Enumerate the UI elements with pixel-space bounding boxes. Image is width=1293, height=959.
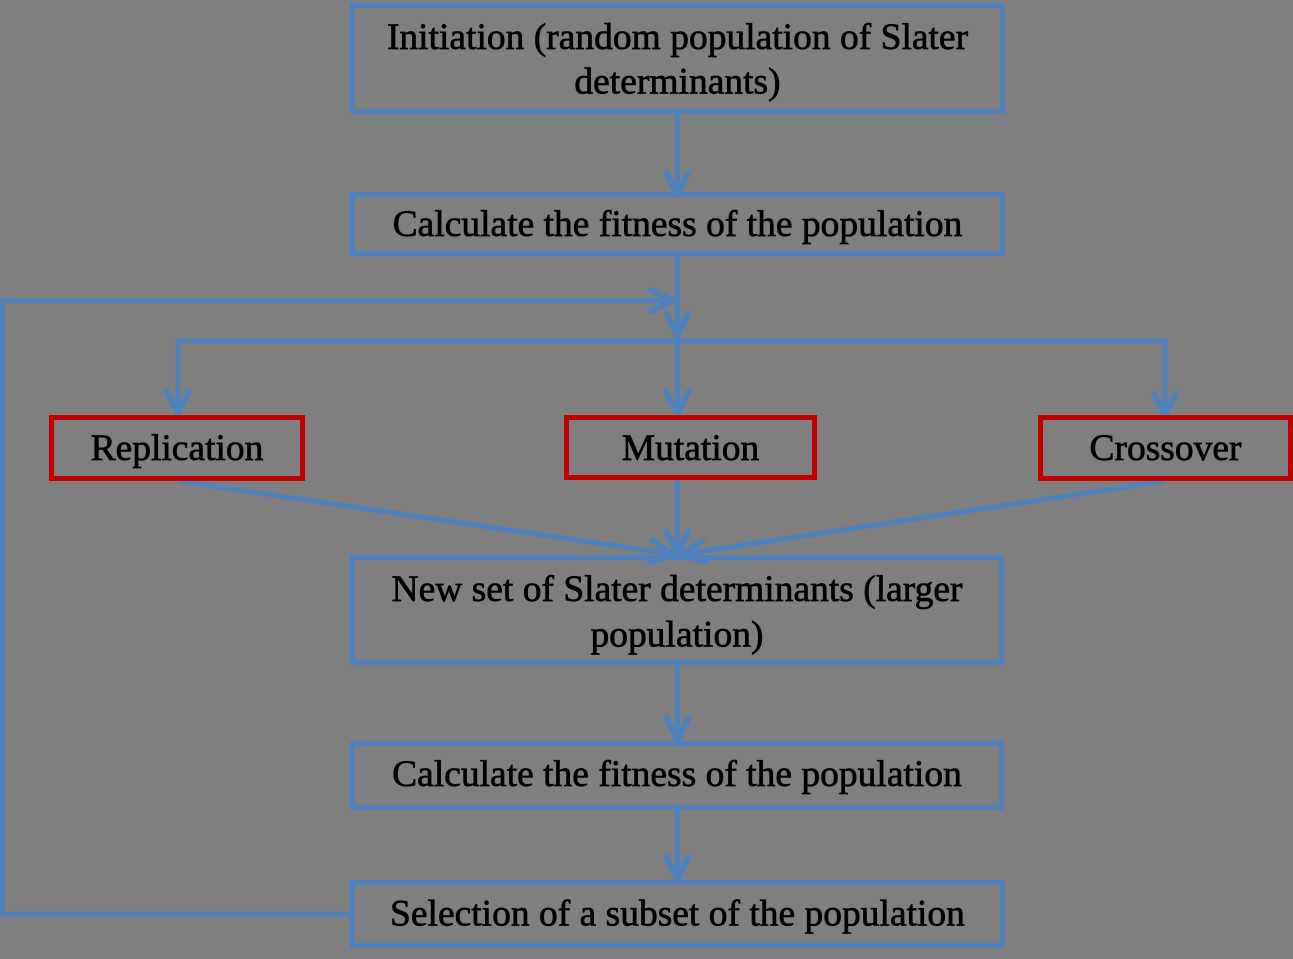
arrowhead Mutation into New set bbox=[667, 532, 689, 554]
arrowhead into box2 bbox=[667, 173, 689, 195]
wire: New set to Calc2 stem bbox=[675, 665, 680, 739]
arrowhead diag left into New set bbox=[650, 540, 673, 562]
wire: distribution rail bbox=[176, 339, 1168, 344]
box: Calculate fitness 2 bbox=[353, 744, 1002, 808]
wire: feedback bottom horizontal bbox=[0, 912, 350, 917]
svg-text:Selection of a subset of the p: Selection of a subset of the population bbox=[390, 894, 965, 935]
box: Crossover bbox=[1041, 418, 1291, 479]
svg-text:Replication: Replication bbox=[91, 428, 264, 469]
arrowhead above rail bbox=[667, 314, 689, 336]
svg-text:Mutation: Mutation bbox=[622, 428, 760, 469]
wire: Mutation to New set stem bbox=[675, 480, 680, 552]
wire: feedback top horizontal bbox=[0, 298, 668, 303]
wire: feedback left vertical bbox=[0, 298, 5, 917]
svg-text:population): population) bbox=[591, 615, 764, 656]
box: Mutation bbox=[567, 418, 815, 478]
svg-text:determinants): determinants) bbox=[574, 62, 780, 103]
box: Initiation bbox=[353, 6, 1003, 112]
arrowhead into Replication bbox=[167, 392, 189, 414]
box: New set bbox=[353, 558, 1002, 663]
wire: box2 down through rail to Mutation bbox=[675, 256, 680, 414]
svg-text:Calculate the fitness of the p: Calculate the fitness of the population bbox=[393, 204, 963, 245]
wire: Crossover diagonal to New set bbox=[684, 481, 1165, 554]
arrowhead diag right into New set bbox=[683, 540, 706, 562]
box: Selection bbox=[353, 883, 1003, 946]
wire: Calc2 to Selection stem bbox=[675, 810, 680, 878]
arrowhead into Mutation bbox=[667, 392, 689, 414]
svg-text:Initiation (random population: Initiation (random population of Slater bbox=[387, 17, 969, 58]
arrowhead into Selection bbox=[667, 857, 689, 879]
svg-text:Crossover: Crossover bbox=[1089, 428, 1242, 469]
svg-text:Calculate the fitness of the p: Calculate the fitness of the population bbox=[392, 754, 962, 795]
wire: rail drop to Replication bbox=[176, 341, 181, 413]
arrowhead feedback right bbox=[651, 290, 673, 312]
arrowhead into Calc2 bbox=[667, 718, 689, 740]
wire: rail drop to Crossover bbox=[1163, 341, 1168, 415]
box: Replication bbox=[52, 418, 303, 479]
arrowhead into Crossover bbox=[1154, 394, 1176, 416]
wire: box1 to box2 stem bbox=[675, 114, 680, 192]
svg-text:New set of Slater determinants: New set of Slater determinants (larger bbox=[392, 569, 963, 610]
wire: Replication diagonal to New set bbox=[178, 481, 671, 554]
box: Calculate fitness 1 bbox=[353, 195, 1003, 254]
